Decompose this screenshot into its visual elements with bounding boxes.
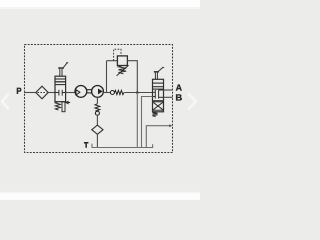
- white page band bottom: [0, 193, 200, 200]
- valve V2 bottom box boundary: [153, 100, 164, 102]
- wire ball to suction filter: [96, 115, 98, 125]
- valve V2 body: [153, 79, 164, 112]
- junction dot main line x relief drain: [136, 91, 139, 94]
- wire relief branch riser: [106, 61, 108, 93]
- wire check valve CV1 to valve V2: [124, 92, 152, 94]
- motor M1 triangle: [76, 90, 80, 95]
- relief valve RV1 pilot dashed line: [114, 49, 121, 61]
- white page band top: [0, 0, 200, 7]
- port A label: [176, 84, 182, 90]
- valve V1 body stripes: [55, 79, 66, 85]
- pump P1 triangle: [98, 89, 102, 94]
- wire riser to relief valve RV1: [107, 60, 118, 62]
- suction check valve CV2 spring: [95, 104, 100, 111]
- valve V2 cross position X: [153, 102, 164, 110]
- wire valve V1 to motor M1: [66, 92, 76, 94]
- motor M1 circle: [75, 86, 87, 98]
- valve V2 middle box closed-port marks: [153, 90, 164, 99]
- valve V1 closed-port marks: [56, 90, 66, 96]
- valve V1 lever: [58, 62, 68, 76]
- tank line T: [92, 144, 153, 148]
- filter F1 (pressure line filter diamond): [36, 86, 48, 99]
- wire drain leg: [146, 126, 170, 148]
- valve V1 body: [55, 76, 66, 102]
- check valve CV1 ball: [110, 91, 114, 95]
- relief valve RV1 adjust arrow: [117, 65, 129, 76]
- valve V2 return spring: [152, 112, 157, 117]
- wire filter to valve V1: [48, 92, 55, 94]
- wire filter to tank line: [96, 134, 98, 147]
- wire port A: [164, 89, 173, 91]
- enclosure dashed boundary: [25, 45, 173, 153]
- wire valve V2 tank return: [142, 97, 153, 148]
- valve V1 drain stem: [62, 102, 65, 112]
- valve V2 lever: [154, 67, 164, 79]
- wire relief drain to tank: [136, 93, 138, 148]
- suction check valve CV2 ball: [95, 111, 99, 115]
- relief valve RV1 spring: [119, 66, 127, 74]
- check valve CV1 spring: [115, 90, 125, 94]
- port B label: [176, 94, 182, 100]
- shaft coupling: [87, 90, 92, 93]
- suction filter F2 diamond: [92, 125, 103, 134]
- port T label: [84, 142, 89, 148]
- port P label: [17, 88, 22, 94]
- valve V2 top box stripes: [153, 83, 164, 89]
- right carousel chevron: [189, 95, 196, 109]
- wire P to filter: [24, 92, 36, 94]
- wire relief valve RV1 outlet: [127, 61, 137, 93]
- valve V1 drain arrow: [66, 101, 70, 103]
- wire port B: [164, 96, 173, 98]
- wire pump outlet to check valve CV1: [103, 92, 110, 94]
- left carousel chevron: [2, 95, 8, 109]
- relief valve RV1 body: [117, 56, 127, 66]
- wire pump suction: [96, 97, 98, 104]
- valve V1 return spring: [55, 102, 60, 110]
- drain arrow at boundary: [169, 124, 172, 127]
- pump P1 circle: [92, 86, 104, 98]
